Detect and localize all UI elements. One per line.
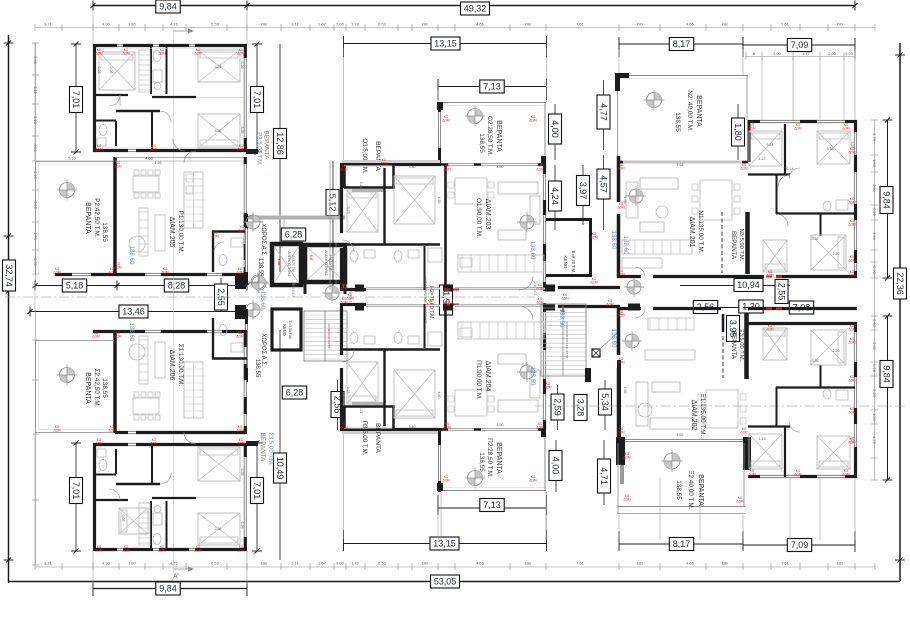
svg-text:1.13: 1.13 — [759, 437, 766, 441]
svg-text:ΔΩΜ: ΔΩΜ — [590, 235, 598, 239]
dimension 4,00 col lower — [555, 440, 557, 492]
dining table 205 — [133, 176, 159, 192]
dimension detail col left — [35, 43, 37, 282]
wall top-left unit left — [93, 44, 96, 152]
svg-text:ΔΩΜ: ΔΩΜ — [95, 147, 103, 151]
svg-text:138,60: 138,60 — [622, 236, 629, 255]
svg-text:3.40: 3.40 — [409, 425, 416, 429]
svg-text:138,60: 138,60 — [610, 329, 617, 348]
svg-text:4.66: 4.66 — [476, 561, 485, 566]
wall 203 interior h1 — [342, 243, 440, 245]
svg-text:5.10: 5.10 — [68, 156, 77, 161]
svg-text:1.73: 1.73 — [351, 22, 360, 27]
dimension 7,08 — [743, 307, 855, 309]
svg-text:DB: DB — [525, 22, 531, 27]
svg-text:ΔΙΑΜ.206: ΔΙΑΜ.206 — [168, 350, 175, 381]
svg-text:ΔΩΜ: ΔΩΜ — [848, 273, 856, 277]
wall interior vert 3 — [151, 111, 153, 149]
extension lines — [92, 10, 94, 44]
svg-text:3.25: 3.25 — [850, 142, 854, 149]
svg-text:2.90: 2.90 — [872, 342, 877, 351]
svg-text:3.05: 3.05 — [109, 67, 113, 74]
svg-text:Ξ2:40,00 Τ.Μ.: Ξ2:40,00 Τ.Μ. — [687, 470, 694, 509]
svg-text:0.96: 0.96 — [872, 208, 877, 217]
svg-text:4.76: 4.76 — [170, 561, 179, 566]
svg-text:ΒΕΡΑΝΤΑ: ΒΕΡΑΝΤΑ — [374, 141, 381, 171]
entry door arcs left units — [184, 151, 196, 163]
svg-text:1.80: 1.80 — [128, 561, 137, 566]
svg-text:ΔΩΜ: ΔΩΜ — [340, 300, 348, 304]
wall wing bottom bottom — [748, 475, 760, 478]
line 205 top — [115, 157, 247, 159]
svg-text:3.13: 3.13 — [33, 86, 38, 95]
dimension 7,13 top — [438, 86, 547, 88]
wall interior bottom unit — [150, 501, 152, 549]
svg-text:4.90: 4.90 — [102, 22, 111, 27]
svg-text:138,55: 138,55 — [674, 112, 681, 132]
bed 204 A — [347, 362, 378, 404]
terrace O3 strip — [329, 161, 331, 290]
wall 203 bottom — [340, 288, 366, 291]
wall Xi2 top — [625, 439, 744, 442]
svg-text:ΔΩΜ: ΔΩΜ — [623, 497, 631, 501]
dimension 7,13 bottom — [438, 507, 547, 509]
terrace O2 boundary — [438, 102, 546, 104]
stairs right — [541, 304, 586, 376]
wall blob right of unit — [246, 149, 258, 154]
svg-text:Ρ1:130,00 Τ.Μ.: Ρ1:130,00 Τ.Μ. — [177, 211, 184, 254]
terrace O2 left wall — [438, 102, 441, 112]
svg-text:7,01: 7,01 — [71, 91, 81, 109]
svg-text:3.11: 3.11 — [291, 561, 299, 566]
dimension 2,55 right — [775, 280, 788, 304]
svg-text:1,80: 1,80 — [733, 123, 743, 141]
door arc 2 — [160, 111, 171, 122]
svg-text:ΔΩΜ: ΔΩΜ — [848, 327, 856, 331]
svg-text:3.00: 3.00 — [773, 51, 782, 56]
bath fixtures — [153, 51, 161, 62]
wall 201 top band — [617, 161, 623, 164]
bed 2 — [198, 50, 240, 82]
dimension 22,36 right line — [899, 43, 901, 581]
door arc 204 — [342, 350, 354, 362]
kitchen 201 — [622, 240, 692, 254]
svg-text:138,60: 138,60 — [259, 291, 266, 310]
svg-text:ΔΩΜ: ΔΩΜ — [848, 410, 856, 414]
svg-text:ΔΩΜ: ΔΩΜ — [443, 167, 451, 171]
wall right of stairs — [617, 360, 621, 440]
svg-text:ΔΩΜ: ΔΩΜ — [740, 166, 748, 170]
dimension 22,36 right box — [894, 268, 907, 299]
terrace N2 corner pier — [615, 73, 629, 78]
svg-text:DD: DD — [837, 561, 843, 566]
svg-text:6,28: 6,28 — [285, 230, 303, 240]
wall wing interior v1 — [784, 124, 786, 174]
svg-text:3.35: 3.35 — [240, 127, 244, 134]
bed 9 — [811, 235, 846, 270]
svg-text:1,30: 1,30 — [742, 302, 760, 312]
svg-text:ΔΩΜ: ΔΩΜ — [536, 425, 544, 429]
terrace P2 boundary — [35, 161, 37, 274]
svg-text:ΔΩΜ: ΔΩΜ — [158, 548, 166, 552]
svg-text:4.50: 4.50 — [497, 423, 504, 427]
svg-text:8,17: 8,17 — [673, 539, 691, 549]
svg-text:ΑΝΕΛΚΥΣΤΗΡΑΣ: ΑΝΕΛΚΥΣΤΗΡΑΣ — [287, 251, 291, 276]
svg-text:ΔΙΑΜ.201: ΔΙΑΜ.201 — [688, 217, 695, 248]
svg-text:3,97: 3,97 — [578, 182, 588, 200]
svg-text:ΔΩΜ: ΔΩΜ — [848, 258, 856, 262]
wall 204 bottom — [340, 428, 441, 431]
wall top-left unit right window — [244, 44, 247, 58]
svg-text:ΑΝΕΛΚΥΣΤΗΡΑΣ: ΑΝΕΛΚΥΣΤΗΡΑΣ — [324, 250, 328, 275]
core grey band — [246, 216, 345, 220]
elevator feet — [304, 284, 307, 294]
elevator shaft 1 — [272, 244, 301, 285]
svg-text:0.96: 0.96 — [872, 364, 877, 373]
wall 203 top — [340, 163, 441, 166]
svg-text:4,00: 4,00 — [550, 120, 560, 138]
svg-text:ΔΩΜ: ΔΩΜ — [536, 167, 544, 171]
svg-text:3.26: 3.26 — [240, 522, 244, 529]
svg-text:6.53: 6.53 — [378, 22, 387, 27]
dimension 12,86 — [279, 44, 281, 272]
svg-text:ΔΩΜ: ΔΩΜ — [95, 548, 103, 552]
sofa 204 — [498, 400, 538, 412]
svg-text:4.90: 4.90 — [102, 561, 111, 566]
svg-text:ΔΩΜ: ΔΩΜ — [736, 499, 744, 503]
svg-text:5.14: 5.14 — [767, 143, 774, 147]
dimension 8,28 — [117, 285, 247, 287]
svg-text:Β=8,20 Τ.Μ.: Β=8,20 Τ.Μ. — [571, 251, 576, 273]
terrace S2 boundary — [35, 340, 37, 433]
svg-text:12,86: 12,86 — [275, 132, 285, 155]
svg-text:A': A' — [173, 574, 178, 580]
corridor walls — [558, 305, 620, 308]
svg-text:7.61: 7.61 — [576, 561, 585, 566]
wall 204 interior v1 — [383, 350, 385, 426]
survey circle 201 — [629, 189, 643, 203]
survey circle Xi2 — [664, 453, 680, 469]
dimension 4,77 col — [603, 80, 605, 150]
terrace Pi2 left wall — [438, 430, 441, 445]
svg-text:ΔΩΜ: ΔΩΜ — [114, 164, 122, 168]
svg-text:2.00: 2.00 — [828, 51, 837, 56]
svg-text:ΒΕΡΑΝΤΑ: ΒΕΡΑΝΤΑ — [259, 433, 266, 463]
svg-text:4.66: 4.66 — [623, 387, 627, 394]
svg-text:7,13: 7,13 — [483, 500, 501, 510]
dimension 49,32 top main line — [93, 5, 855, 7]
svg-text:ΔΩΜ: ΔΩΜ — [794, 126, 802, 130]
room KENO Z bottom — [272, 309, 301, 350]
svg-text:ΔΩΜ: ΔΩΜ — [617, 430, 625, 434]
wall piers left-mid — [235, 274, 246, 289]
wall core bottom piers — [245, 309, 248, 324]
wall wing interior h1 — [748, 173, 790, 175]
svg-text:ΔΩΜ: ΔΩΜ — [236, 270, 244, 274]
svg-text:ΔΩΜ: ΔΩΜ — [53, 428, 61, 432]
dimension 7,01 left lower — [75, 443, 77, 551]
svg-text:ΔΩΜ: ΔΩΜ — [617, 166, 625, 170]
kitchen 204 — [458, 322, 544, 339]
bath wing bottom — [823, 389, 831, 399]
dimension 53,05 bottom — [8, 581, 900, 583]
svg-text:ΔΩΜ: ΔΩΜ — [114, 334, 122, 338]
svg-text:Π1:90,00 Τ.Μ.: Π1:90,00 Τ.Μ. — [475, 360, 482, 400]
svg-text:8,17: 8,17 — [673, 39, 691, 49]
bed 11 — [817, 436, 850, 469]
svg-text:DB: DB — [261, 22, 267, 27]
wall top-left unit top — [93, 44, 117, 47]
survey circle core 2 — [251, 275, 265, 289]
svg-text:ΔΩΜ: ΔΩΜ — [92, 334, 100, 338]
svg-text:ΔΩΜ: ΔΩΜ — [617, 313, 625, 317]
dimension 2,55 left-mid — [220, 278, 222, 312]
svg-text:DB: DB — [722, 22, 728, 27]
svg-text:3.36: 3.36 — [215, 65, 222, 69]
svg-text:2.90: 2.90 — [872, 232, 877, 241]
svg-text:ΔΩΜ: ΔΩΜ — [794, 472, 802, 476]
svg-text:ΒΕΡΑΝΤΑ: ΒΕΡΑΝΤΑ — [695, 95, 702, 127]
wall bottom-left unit top — [93, 443, 128, 446]
svg-text:4.50: 4.50 — [437, 197, 441, 204]
svg-text:Ο3:5,00 Τ.Μ.: Ο3:5,00 Τ.Μ. — [361, 138, 368, 174]
svg-text:DB: DB — [261, 561, 267, 566]
svg-text:Π3:5,00 Τ.Μ.: Π3:5,00 Τ.Μ. — [361, 421, 368, 456]
bed 203 B — [394, 176, 435, 224]
slab band below 204 — [342, 431, 440, 434]
dimension 5,18 — [35, 285, 117, 287]
svg-text:ΔΩΜ: ΔΩΜ — [95, 441, 103, 445]
svg-text:Σ2:42,50 Τ.Μ.: Σ2:42,50 Τ.Μ. — [93, 368, 100, 407]
sofa 203 — [498, 182, 538, 194]
svg-text:ΔΩΜ: ΔΩΜ — [623, 455, 631, 459]
svg-text:2.20: 2.20 — [833, 349, 840, 353]
extension lines bottom center — [440, 492, 442, 540]
red dashes center corridor — [444, 289, 450, 291]
svg-text:0.90: 0.90 — [872, 319, 877, 328]
dining 204 — [455, 390, 487, 416]
svg-text:138,60: 138,60 — [128, 246, 135, 265]
svg-text:138,60: 138,60 — [610, 231, 617, 250]
svg-text:3.40: 3.40 — [409, 165, 416, 169]
svg-text:138,55: 138,55 — [101, 378, 108, 398]
svg-text:ΔΩΜ: ΔΩΜ — [617, 205, 625, 209]
svg-text:ΔΩΜ: ΔΩΜ — [544, 385, 552, 389]
svg-text:6,28: 6,28 — [286, 388, 304, 398]
dimension 3,97 col — [582, 165, 584, 225]
door arc wing — [778, 175, 790, 187]
svg-text:5,18: 5,18 — [66, 281, 84, 291]
slab band above 203 — [342, 160, 440, 163]
dimension detail row top right — [746, 56, 855, 58]
dimension detail row bottom — [35, 566, 875, 568]
survey circle N2 — [647, 93, 662, 108]
svg-text:ΧΩΡΟΣ Α.Σ.: ΧΩΡΟΣ Α.Σ. — [260, 223, 266, 257]
window sill lines top-left — [96, 48, 244, 50]
svg-text:Ε=3,70 Τ.Μ.: Ε=3,70 Τ.Μ. — [291, 255, 295, 272]
bed 3 — [198, 114, 240, 148]
svg-text:ΔΩΜ: ΔΩΜ — [536, 286, 544, 290]
dimension 13,46 — [30, 311, 240, 313]
red dashes corridor — [766, 276, 772, 278]
svg-text:ΔΩΜ: ΔΩΜ — [158, 51, 166, 55]
dining 203 — [455, 178, 487, 204]
svg-text:ΔΩΜ: ΔΩΜ — [617, 360, 625, 364]
centerline right — [535, 405, 908, 407]
svg-text:3.36: 3.36 — [215, 527, 222, 531]
svg-text:ΔΩΜ: ΔΩΜ — [380, 161, 388, 165]
closet bottom-left unit — [139, 503, 150, 545]
wall wing bottom — [748, 275, 764, 278]
section line A — [173, 30, 175, 572]
svg-text:ΔΩΜ: ΔΩΜ — [529, 118, 537, 122]
wall interior vertical bath left — [150, 46, 152, 94]
svg-text:138,55: 138,55 — [478, 133, 485, 153]
svg-text:7,09: 7,09 — [791, 540, 809, 550]
svg-text:7,01: 7,01 — [71, 482, 81, 500]
svg-text:ΔΩΜ: ΔΩΜ — [848, 200, 856, 204]
terrace Xi2 boundary — [617, 443, 619, 514]
svg-text:ΔΩΜ: ΔΩΜ — [194, 548, 202, 552]
bed 203 A — [347, 190, 378, 232]
svg-text:ΔΩΜ: ΔΩΜ — [842, 126, 850, 130]
svg-text:138,55: 138,55 — [254, 359, 260, 378]
wall core left piers — [245, 214, 248, 228]
dimension 2,59 col lower — [557, 385, 559, 430]
door arcs bottom unit — [109, 489, 120, 500]
svg-text:3.21: 3.21 — [359, 407, 363, 414]
svg-text:3.13: 3.13 — [33, 116, 38, 125]
dimension 9,84 top box — [156, 0, 180, 13]
balcony O3 room — [342, 165, 346, 188]
dimension 2,56 right — [680, 307, 743, 309]
dimension 7,01 left upper — [75, 44, 77, 152]
wall wing left — [748, 120, 751, 162]
svg-text:ΒΕΡΑΝΤΑ: ΒΕΡΑΝΤΑ — [84, 372, 91, 404]
door arc 1 — [109, 95, 120, 106]
svg-text:4.50: 4.50 — [497, 165, 504, 169]
svg-text:10,94: 10,94 — [737, 280, 760, 290]
dimension 32,74 left line — [8, 35, 10, 583]
wall 203 interior v1 — [383, 168, 385, 244]
terrace Pi2 piers — [437, 483, 443, 491]
wall interior vertical bath right — [166, 46, 168, 94]
svg-text:ΔΩΜ: ΔΩΜ — [236, 334, 244, 338]
dimension 9,84 bottom — [93, 588, 247, 590]
dimension 32,74 left box — [3, 260, 16, 291]
svg-text:0.90: 0.90 — [872, 266, 877, 275]
closet top-left unit — [139, 50, 150, 92]
dimension 9,84 right upper — [887, 120, 889, 278]
svg-text:6.53: 6.53 — [211, 561, 220, 566]
wall wing bottom right window — [854, 322, 857, 332]
svg-text:ΔΩΜ: ΔΩΜ — [561, 296, 569, 300]
wall 206 bottom — [115, 431, 128, 434]
svg-text:ΔΩΜ: ΔΩΜ — [590, 280, 598, 284]
terrace Pi2 boundary — [438, 490, 546, 492]
bed 5 — [198, 513, 240, 545]
dimension detail col left lower — [35, 312, 37, 565]
svg-text:3.36: 3.36 — [215, 129, 222, 133]
svg-text:ΔΩΜ: ΔΩΜ — [444, 300, 452, 304]
terrace O2 piers — [437, 102, 443, 110]
svg-text:4.75: 4.75 — [872, 133, 877, 142]
svg-text:4,24: 4,24 — [550, 187, 560, 205]
bed 10 — [749, 434, 782, 469]
bed 9b — [763, 240, 787, 272]
dimension 4,71 col lower — [603, 440, 605, 505]
elevator shaft 2 — [305, 245, 345, 282]
svg-text:2.00: 2.00 — [336, 561, 345, 566]
wall wing interior h2 — [776, 212, 855, 214]
svg-text:ΔΩΜ: ΔΩΜ — [617, 272, 625, 276]
svg-text:DB: DB — [525, 561, 531, 566]
bed 6 — [198, 447, 240, 481]
dimension 13,15 top — [344, 43, 547, 45]
svg-text:3.38: 3.38 — [827, 147, 834, 151]
bath wing — [823, 201, 831, 211]
dimension detail col right — [874, 120, 876, 480]
survey circle O2 — [468, 109, 483, 124]
dining 202 — [706, 390, 738, 428]
svg-text:4.66: 4.66 — [476, 22, 485, 27]
svg-text:1.50: 1.50 — [872, 413, 877, 422]
svg-text:0.93: 0.93 — [845, 51, 854, 56]
svg-text:ΔΩΜ: ΔΩΜ — [122, 548, 130, 552]
svg-text:ΔΩΜ: ΔΩΜ — [848, 340, 856, 344]
bed 1 — [99, 52, 135, 90]
dining 201 — [700, 180, 732, 220]
svg-text:ΔΩΜ: ΔΩΜ — [238, 228, 246, 232]
wall 201 left — [617, 156, 621, 202]
dimension 13,15 bottom — [344, 543, 547, 545]
svg-text:53,05: 53,05 — [434, 577, 457, 587]
wall 203 right window — [543, 163, 546, 174]
dimension 5,34 col lower — [604, 380, 606, 430]
svg-text:4.66: 4.66 — [145, 156, 154, 161]
bed 4 — [119, 508, 148, 534]
survey circle left-mid — [252, 276, 266, 290]
svg-text:3.23: 3.23 — [346, 207, 350, 214]
svg-text:ΔΩΜ: ΔΩΜ — [848, 222, 856, 226]
thin line y97 — [152, 96, 196, 98]
dimension 7,09 top — [743, 44, 855, 46]
wall wing interior v3 — [820, 214, 822, 236]
survey circle S2 — [60, 368, 75, 383]
dimension detail row top — [35, 27, 875, 29]
svg-text:ΒΕΡΑΝΤΑ: ΒΕΡΑΝΤΑ — [84, 202, 91, 234]
svg-text:3.11: 3.11 — [291, 22, 299, 27]
svg-text:ΔΩΜ: ΔΩΜ — [529, 478, 537, 482]
diagonal ref line — [598, 330, 620, 351]
dimension 1,80 right — [737, 104, 739, 160]
wall 203 left — [340, 163, 343, 233]
svg-text:5.14: 5.14 — [787, 167, 794, 171]
svg-text:3.36: 3.36 — [812, 359, 819, 363]
balcony P3 room — [342, 406, 346, 429]
svg-text:Κ4Β: Κ4Β — [277, 259, 281, 266]
svg-text:ΔΩΜ: ΔΩΜ — [211, 234, 219, 238]
svg-text:22,36: 22,36 — [895, 272, 905, 295]
thin line y497 — [152, 497, 196, 499]
wc bottom-left unit — [96, 474, 116, 476]
wall 204 right window — [543, 303, 546, 312]
wall right corridor bottom — [617, 307, 641, 310]
wall 204 bath v — [424, 304, 426, 348]
wall 204 top — [340, 303, 366, 306]
svg-text:P2:42,50 Τ.Μ.: P2:42,50 Τ.Μ. — [93, 198, 100, 238]
wall 206 bath — [212, 357, 247, 359]
